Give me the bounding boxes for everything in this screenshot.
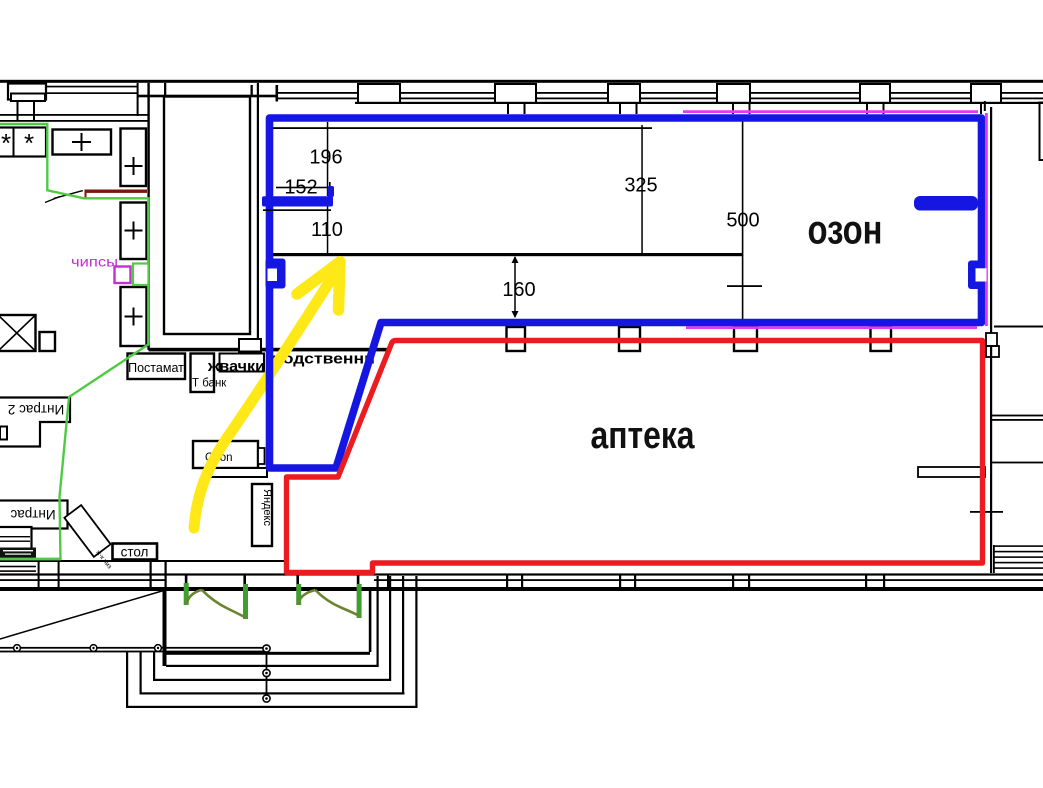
svg-text:стол: стол bbox=[121, 545, 149, 560]
MAGENTA-RIGHT bbox=[976, 113, 987, 326]
door leaf diagonal small bbox=[45, 197, 60, 203]
yandex box bbox=[252, 484, 272, 546]
entrance stud door1 right bbox=[243, 575, 246, 585]
door1 right leaf arc bbox=[202, 590, 246, 618]
bottom wall line y574 bbox=[0, 573, 1043, 575]
right wall vertical x991 bbox=[990, 107, 992, 573]
svg-text:Т банк: Т банк bbox=[192, 378, 227, 390]
corner box above zhvachki bbox=[239, 339, 261, 352]
rail post circle 2 bbox=[90, 645, 97, 652]
tbank box bbox=[191, 354, 215, 393]
rail post circle 1 bbox=[14, 645, 21, 652]
blue stub tick bbox=[328, 186, 335, 197]
counter divider bbox=[13, 128, 15, 157]
right hatch stack bbox=[994, 545, 1043, 547]
porch left wall bbox=[163, 589, 167, 666]
shaft top edge stubs to facade bbox=[164, 83, 166, 96]
svg-text:160: 160 bbox=[502, 279, 535, 301]
stol box bbox=[113, 544, 158, 560]
small box below blue right corner bbox=[986, 333, 997, 346]
YELLOWARROW bbox=[194, 262, 340, 528]
pharmacy shelf right bbox=[918, 467, 985, 477]
svg-text:325: 325 bbox=[624, 175, 657, 197]
pillar stud right bbox=[33, 101, 35, 120]
svg-text:152: 152 bbox=[284, 177, 317, 199]
small square near x-box bbox=[40, 332, 56, 351]
mullion pair A below band bbox=[507, 104, 509, 115]
left small lines y566 y571 bbox=[0, 566, 36, 568]
postamat box bbox=[128, 354, 186, 380]
bottom band mullion single x388 bbox=[387, 574, 389, 588]
svg-text:чипсы: чипсы bbox=[71, 255, 118, 270]
x-crossed box bbox=[0, 315, 36, 351]
green line at bottom wall bbox=[0, 558, 61, 560]
blue wall stub right bbox=[914, 196, 978, 211]
door hole in right wall bbox=[976, 268, 987, 281]
rail end vertical bbox=[266, 648, 268, 700]
door2 green jamb right bbox=[357, 584, 362, 618]
magenta accent top bbox=[683, 110, 978, 113]
dim line 500 vertical bbox=[742, 116, 744, 322]
plus box horizontal bbox=[53, 130, 112, 155]
step4 right vertical bbox=[415, 576, 417, 708]
yellow arrow head bbox=[297, 262, 340, 310]
step3 bottom bbox=[140, 692, 405, 694]
plus box vertical 3 bbox=[121, 287, 147, 346]
green square shelf bbox=[133, 264, 149, 286]
inner box below intras bbox=[0, 527, 32, 549]
facade window sill upper left bbox=[46, 86, 138, 88]
small step right wall bbox=[986, 346, 999, 357]
magenta square bbox=[115, 267, 131, 284]
facade pier box 5 bbox=[860, 84, 890, 103]
porch inner bottom bbox=[166, 652, 370, 655]
column box 3 bbox=[734, 327, 757, 351]
right doorway bracket bbox=[1040, 103, 1043, 161]
svg-text:аптека: аптека bbox=[591, 415, 696, 457]
structural shaft column bbox=[164, 97, 250, 335]
shelf below ozon box bbox=[207, 468, 267, 477]
porch right wall bbox=[369, 589, 372, 652]
ramp diagonal bbox=[0, 590, 167, 640]
dim 152 end tick bbox=[329, 182, 331, 196]
door1 green jamb left bbox=[184, 583, 189, 605]
interior wall line left double lower bbox=[0, 120, 149, 122]
mullion pair E below band bbox=[980, 104, 982, 115]
mullion pair C below band bbox=[732, 104, 734, 115]
GREENWORK bbox=[0, 124, 362, 619]
bottom wall line y580 right bbox=[374, 579, 1043, 581]
column box 1 between blue and red bbox=[507, 327, 526, 351]
facade pier box 1 bbox=[358, 84, 400, 103]
door1 left leaf arc bbox=[187, 590, 202, 605]
bottom band mullion pair 4 bbox=[865, 574, 867, 588]
svg-text:озон: озон bbox=[808, 207, 883, 253]
svg-text:500: 500 bbox=[726, 210, 759, 232]
pier vertical right of blue corner bbox=[276, 85, 279, 102]
apteka zone red outline bbox=[287, 341, 983, 573]
svg-text:110: 110 bbox=[311, 219, 343, 241]
svg-text:Интрас 2: Интрас 2 bbox=[8, 402, 64, 417]
ozon inner top wall line bbox=[267, 127, 652, 129]
wall right of shaft x258 bbox=[257, 83, 259, 347]
right side double line y415 bbox=[992, 415, 1043, 417]
tick on 500 line bbox=[727, 285, 762, 287]
small box right of ozon bbox=[258, 448, 265, 464]
entrance stud door2 right bbox=[357, 575, 360, 585]
step4 left vertical bbox=[126, 651, 128, 708]
dark red shelf line bbox=[85, 190, 148, 193]
wall line right of blue corner bbox=[994, 326, 1043, 328]
right side line y462 bbox=[992, 462, 1043, 464]
rail end circle bottom bbox=[263, 695, 270, 702]
green shop boundary polyline bbox=[0, 124, 148, 559]
facade pier box 2 bbox=[495, 84, 536, 103]
door1 green jamb right bbox=[243, 584, 248, 619]
step1 right vertical bbox=[377, 576, 379, 667]
bottom wall line y580 left bbox=[0, 579, 166, 581]
step4 bottom bbox=[126, 706, 417, 708]
bottom band mullion pair 1 bbox=[506, 574, 508, 588]
step2 bottom bbox=[153, 679, 391, 681]
bottom wall main line y588 bbox=[0, 587, 1043, 591]
plus sign 1 bbox=[72, 133, 91, 151]
dim line 110 vertical bbox=[327, 206, 329, 254]
facade second line over shaft bbox=[137, 95, 278, 98]
plus box vertical 1 bbox=[121, 129, 147, 187]
svg-text:Яндекс: Яндекс bbox=[261, 489, 273, 526]
facade pillar top-left bbox=[8, 84, 46, 100]
inner box hatch lines bbox=[0, 536, 30, 537]
dim line 160 vertical with arrows bbox=[514, 257, 516, 317]
bottom wall divider x58 bbox=[58, 561, 60, 589]
intras2 stepped box bbox=[0, 398, 70, 447]
yellow arrow shaft bbox=[194, 278, 332, 528]
facade pier box 4 bbox=[717, 84, 750, 103]
MAGENTA bbox=[683, 112, 978, 328]
dim 152 line bbox=[276, 187, 330, 189]
entrance stud door2 left bbox=[296, 575, 299, 585]
rail post circle dots bbox=[16, 647, 18, 649]
bottom band mullion pair 3 bbox=[732, 574, 734, 588]
ozon parcel box bbox=[193, 441, 258, 468]
dense label box bbox=[0, 548, 36, 559]
door2 right leaf arc bbox=[315, 590, 359, 616]
step3 right vertical bbox=[402, 576, 404, 694]
column box 2 bbox=[619, 327, 640, 351]
rail post circle 3 bbox=[155, 645, 162, 652]
BLACKPLAN bbox=[0, 80, 1043, 708]
facade pier box 3 bbox=[608, 84, 640, 103]
small dark box left edge bbox=[0, 427, 7, 440]
REDZONE bbox=[287, 341, 983, 573]
counter with asterisks bbox=[0, 128, 46, 157]
right hatch left border bbox=[993, 545, 995, 573]
svg-text:Постамат: Постамат bbox=[128, 361, 184, 375]
plus box vertical 2 bbox=[121, 203, 147, 260]
bottom wall divider x150 bbox=[150, 561, 152, 589]
plus sign 4 bbox=[125, 308, 143, 326]
door2 green jamb left bbox=[296, 584, 301, 605]
rail end circle mid bbox=[263, 669, 270, 676]
entrance stud door1 left bbox=[185, 575, 188, 585]
step2 right vertical bbox=[389, 576, 391, 681]
x-cross lines bbox=[0, 315, 36, 351]
mullion pair D below band bbox=[866, 104, 868, 115]
column box 4 bbox=[871, 327, 892, 351]
wall line under blue stub bbox=[263, 209, 331, 211]
interior wall line left double upper bbox=[0, 114, 149, 116]
blue door notch left bbox=[266, 259, 286, 289]
svg-text:*: * bbox=[24, 128, 34, 158]
svg-text:жвачки: жвачки bbox=[207, 358, 265, 375]
step2 left vertical bbox=[153, 651, 155, 680]
svg-text:196: 196 bbox=[309, 147, 342, 169]
rail end circle top bbox=[263, 645, 270, 652]
corridor wall x148 bbox=[147, 83, 149, 350]
BLUEZONE bbox=[262, 118, 982, 468]
dark red tick bbox=[85, 190, 87, 200]
rail line with posts bbox=[0, 647, 267, 649]
door leaf diagonal left shop bbox=[54, 191, 83, 199]
intras box 2 bbox=[0, 501, 68, 529]
svg-text:*: * bbox=[1, 128, 11, 158]
bottom wall divider x165 bbox=[165, 561, 167, 589]
top facade wall line bbox=[0, 80, 1043, 83]
dim line 325 vertical bbox=[641, 125, 643, 253]
bottom band mullion pair 2 bbox=[619, 574, 621, 588]
mullion pair B below band bbox=[619, 104, 621, 115]
bottom wall line y561 bbox=[0, 560, 285, 562]
facade band bottom line bbox=[355, 102, 1043, 104]
magenta accent bottom bbox=[686, 326, 977, 329]
facade pillar lip bbox=[11, 94, 45, 102]
facade window sills right span bbox=[278, 92, 1043, 94]
wall line y349 bbox=[149, 348, 391, 352]
step3 left vertical bbox=[140, 651, 142, 694]
door2 left leaf arc bbox=[298, 590, 316, 605]
blue door notch right bbox=[968, 261, 981, 290]
right side tick y512 bbox=[970, 511, 1003, 513]
blue wall stub left bbox=[262, 196, 333, 206]
BIGTEXT bbox=[591, 207, 883, 458]
step1 bottom bbox=[166, 665, 378, 667]
magenta accent right over blue bbox=[985, 113, 988, 326]
plus sign 2 bbox=[125, 157, 143, 175]
plus sign 3 bbox=[125, 222, 143, 240]
pillar stud left bbox=[17, 101, 19, 120]
corridor wall stud x137 bbox=[137, 83, 139, 116]
dim line 196 vertical bbox=[327, 122, 329, 196]
rotated fridge rect bbox=[64, 505, 110, 557]
bottom wall divider x38 bbox=[38, 561, 40, 589]
svg-text:Интрас: Интрас bbox=[10, 507, 55, 522]
interior wall line y254 bbox=[267, 253, 743, 256]
ozon zone blue outline bbox=[270, 118, 982, 468]
facade pier box 6 bbox=[971, 84, 1001, 103]
zhvachki box bbox=[220, 354, 265, 372]
